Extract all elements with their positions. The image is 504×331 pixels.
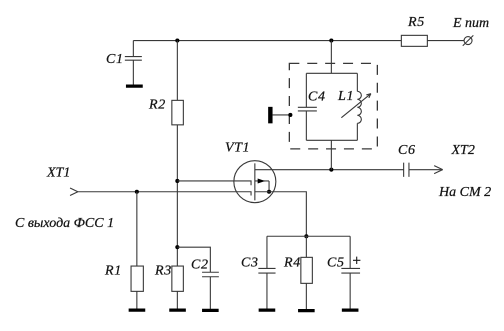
inductor L1 coil xyxy=(357,91,361,123)
resistor R1 xyxy=(131,266,143,291)
wire output to XT2 xyxy=(409,169,443,171)
ground for C3 xyxy=(259,309,276,312)
capacitor C6 xyxy=(404,163,409,177)
wire tank loop right lower xyxy=(356,123,358,140)
wire chassis to shield xyxy=(273,114,291,116)
capacitor C5 polarized xyxy=(341,268,360,308)
node tank-drain junction xyxy=(329,168,333,172)
wire C2 branch xyxy=(177,247,210,272)
wire C5 top lead xyxy=(349,236,351,268)
svg-text:XT1: XT1 xyxy=(46,166,70,181)
wire top supply rail left segment xyxy=(133,40,401,42)
transistor VT1 body circle xyxy=(234,161,276,203)
resistor R5 xyxy=(401,35,427,46)
svg-text:Е пит: Е пит xyxy=(452,16,489,31)
wire C3 top lead xyxy=(266,236,268,268)
svg-text:R5: R5 xyxy=(407,15,425,30)
wire bypass rail xyxy=(267,235,350,237)
ground for C2 xyxy=(202,309,219,312)
capacitor C1 xyxy=(125,41,142,85)
wire R1 top lead xyxy=(136,192,138,266)
svg-text:C3: C3 xyxy=(241,256,259,271)
node R3-C2 junction xyxy=(175,245,179,249)
terminal XT2 output arrow xyxy=(434,166,443,174)
shield dashed box xyxy=(289,63,377,149)
svg-text:R1: R1 xyxy=(104,264,122,279)
svg-text:R4: R4 xyxy=(283,256,301,271)
wire tank loop left lower xyxy=(305,111,307,140)
wire input line to gate2 xyxy=(78,192,251,196)
svg-text:C2: C2 xyxy=(191,258,209,273)
node substrate-source junction xyxy=(267,190,271,194)
capacitor C4 xyxy=(298,107,317,111)
wire VT1 source line xyxy=(255,192,307,237)
svg-text:C4: C4 xyxy=(308,90,326,105)
wire top supply rail right segment xyxy=(427,40,464,42)
wire tank loop bottom xyxy=(306,139,357,141)
ground for R3 xyxy=(169,309,186,312)
chassis bar for shield xyxy=(268,107,272,124)
wire tank loop right upper xyxy=(356,73,358,91)
resistor R4 xyxy=(301,257,313,283)
inductor L1 adjustment arrow xyxy=(341,94,371,118)
ground for R1 xyxy=(129,309,146,312)
node source bypass junction xyxy=(304,234,308,238)
svg-text:C5: C5 xyxy=(327,256,345,271)
wire R4 top lead xyxy=(305,236,307,257)
svg-text:L1: L1 xyxy=(337,89,354,104)
wire R1 bottom lead xyxy=(136,291,138,308)
wire R2 bottom lead down to R3 xyxy=(176,125,178,266)
svg-text:C6: C6 xyxy=(398,143,416,158)
svg-text:R3: R3 xyxy=(154,264,172,279)
node R1 junction on input line xyxy=(135,190,139,194)
node tank junction on rail xyxy=(329,39,333,43)
node gate1 junction xyxy=(175,179,179,183)
wire tank loop left upper xyxy=(305,73,307,107)
ground for R4 xyxy=(298,309,315,312)
wire tank top feed xyxy=(330,41,332,74)
terminal XT1 input arrow xyxy=(70,188,78,195)
transistor VT1 substrate lead with arrow xyxy=(255,178,269,191)
wire R4 bottom lead xyxy=(305,283,307,309)
svg-text:C1: C1 xyxy=(106,52,124,67)
terminal E pit circle xyxy=(463,35,474,45)
wire tank bottom feed xyxy=(330,140,332,169)
wire R2 top lead xyxy=(176,41,178,101)
node junction on rail at R2 column xyxy=(175,39,179,43)
ground for C5 xyxy=(342,309,359,312)
node on shield edge xyxy=(288,113,292,117)
svg-text:XT2: XT2 xyxy=(451,143,475,158)
wire tank loop top xyxy=(306,72,357,74)
capacitor C2 xyxy=(202,272,219,309)
capacitor C3 xyxy=(258,268,275,308)
resistor R2 xyxy=(172,100,184,125)
wire VT1 drain output line xyxy=(255,169,404,171)
svg-text:VT1: VT1 xyxy=(225,141,250,156)
transistor VT1 channel xyxy=(254,163,256,200)
label C5 plus sign xyxy=(353,257,360,264)
wire R3 bottom lead xyxy=(176,291,178,308)
resistor R3 xyxy=(172,266,184,291)
svg-text:На СМ 2: На СМ 2 xyxy=(438,185,491,200)
ground for C1 xyxy=(126,85,143,88)
wire gate1 line xyxy=(177,181,251,185)
svg-text:С выхода ФСС 1: С выхода ФСС 1 xyxy=(15,216,114,231)
svg-text:R2: R2 xyxy=(148,98,166,113)
